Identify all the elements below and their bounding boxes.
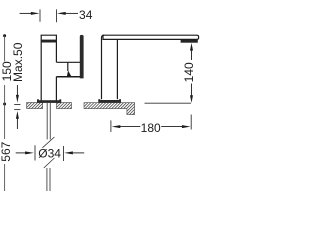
svg-text:Ø34: Ø34 bbox=[38, 147, 61, 161]
left arrow bbox=[112, 125, 141, 128]
top arrow (up) bbox=[190, 43, 193, 51]
counter reference line bbox=[145, 102, 192, 104]
pipe break slash lower bbox=[44, 158, 55, 168]
svg-text:Max.50: Max.50 bbox=[11, 42, 25, 82]
lever stick bbox=[67, 62, 69, 71]
faucet body outline bbox=[41, 35, 83, 101]
cap dark band bbox=[41, 40, 57, 43]
lever triangle tip bbox=[67, 71, 72, 77]
counter hatch block with step bbox=[84, 103, 135, 115]
svg-text:34: 34 bbox=[79, 8, 93, 22]
lower shoulder line bbox=[56, 76, 82, 78]
spout bar outline bbox=[103, 35, 199, 39]
dim line segments bbox=[4, 36, 6, 191]
lower arrow (up) bbox=[16, 111, 19, 129]
dim34 left arrow bbox=[20, 12, 40, 15]
body left edge bbox=[40, 35, 42, 101]
pipe break slash upper bbox=[42, 137, 54, 148]
supply pipe lower bbox=[47, 168, 50, 191]
datum dot counter level bbox=[3, 103, 6, 106]
upper arrow (down) bbox=[16, 85, 19, 103]
bottom arrow (down) bbox=[190, 95, 193, 103]
dim34 right arrow bbox=[57, 12, 78, 15]
cap top line bbox=[41, 34, 57, 36]
dim34 extension tick right bbox=[56, 9, 58, 22]
left arrow bbox=[16, 151, 34, 154]
tick right bbox=[190, 115, 192, 130]
handle lever bar bbox=[80, 35, 84, 79]
counter hatch left block bbox=[27, 103, 43, 109]
tick counter top bbox=[14, 104, 20, 106]
body right edge upper bbox=[55, 35, 57, 62]
tick left bbox=[110, 120, 112, 132]
counter hatch right block bbox=[57, 103, 72, 109]
svg-text:140: 140 bbox=[182, 62, 196, 82]
aerator nub bbox=[181, 40, 198, 43]
datum dot top bbox=[3, 34, 6, 37]
right arrow bbox=[161, 125, 190, 128]
body left edge bbox=[102, 35, 105, 99]
base plate bbox=[37, 100, 61, 103]
tick counter bottom bbox=[14, 109, 20, 111]
tick left bbox=[34, 145, 36, 160]
body right edge lower bbox=[55, 77, 57, 101]
base plate right view bbox=[98, 100, 121, 103]
base plate end lips right view bbox=[98, 99, 100, 101]
dim34 extension tick left bbox=[39, 9, 41, 21]
spout underside line bbox=[56, 61, 82, 63]
right arrow bbox=[64, 151, 84, 154]
tick right bbox=[63, 146, 65, 161]
body right edge bbox=[116, 39, 118, 99]
svg-text:567: 567 bbox=[0, 141, 13, 161]
supply pipe upper bbox=[47, 103, 50, 139]
base plate end lips bbox=[37, 99, 39, 101]
svg-text:180: 180 bbox=[141, 121, 161, 135]
